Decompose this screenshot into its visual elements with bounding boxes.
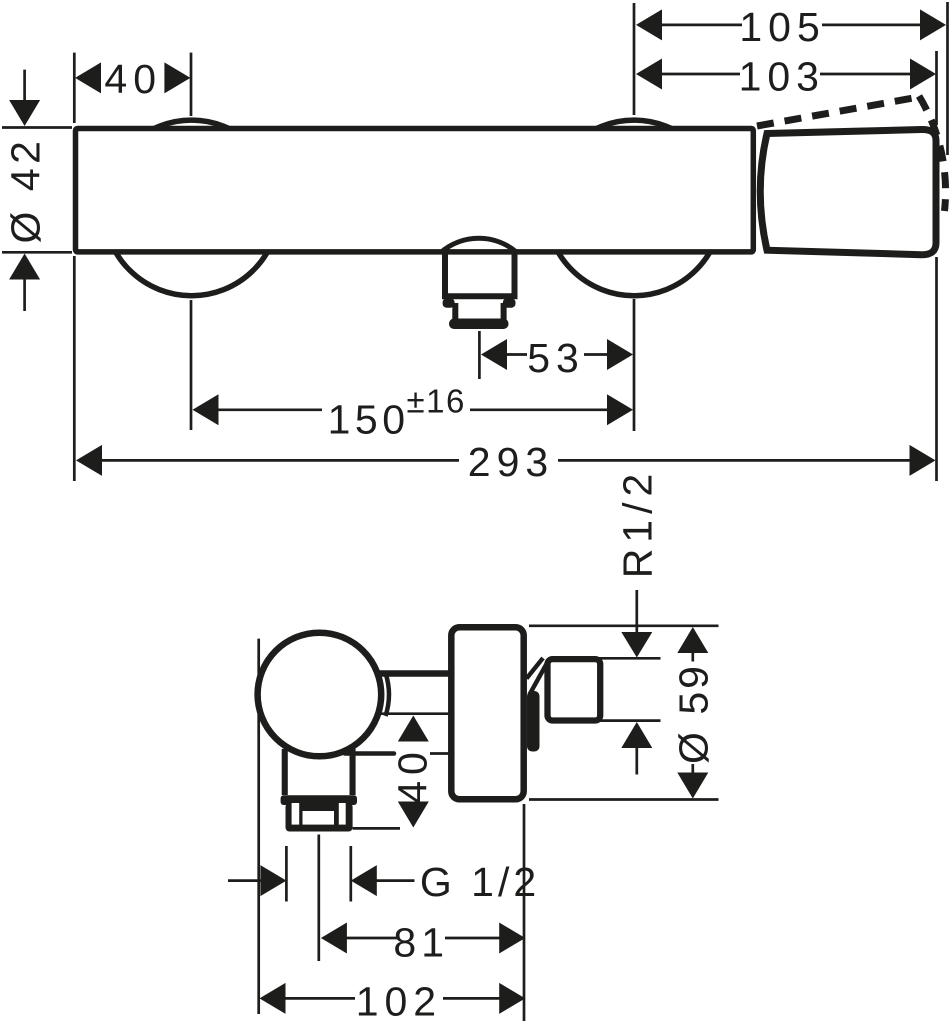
dim 105 ext line right [946, 2, 949, 155]
dim O59 arrow bottom [677, 773, 708, 799]
dim 293 line [102, 459, 910, 462]
dim O42 line top [23, 70, 26, 101]
svg-text:40: 40 [390, 746, 436, 804]
dim R12 ext line top [599, 657, 661, 660]
dim 293 arrow left [76, 445, 102, 476]
dim O59 ext line bottom [529, 798, 719, 801]
side view: nut slot right [339, 803, 346, 825]
svg-text:293: 293 [468, 439, 554, 485]
dim 102 ext line left [257, 639, 260, 1014]
svg-text:G 1/2: G 1/2 [420, 859, 540, 905]
dim 150 arrow right [607, 394, 633, 425]
dim 293 ext line right [935, 257, 938, 481]
side view: lever top line [374, 670, 449, 677]
side view: down outlet flange band [281, 795, 357, 805]
side view: bar silhouette line left segment [345, 751, 394, 756]
dim 40 arrow left [75, 62, 101, 93]
dim G12 ext line right [349, 846, 352, 902]
dim R12 line top [635, 590, 638, 633]
dim 105 arrow left [636, 9, 662, 40]
dim R12 arrow bottom [621, 722, 652, 748]
outlet upper cylinder [445, 252, 515, 296]
dim 40 arrow right [164, 62, 190, 93]
side view: cone diagonal upper [527, 658, 544, 679]
escutcheon circle right [546, 120, 722, 296]
side view: cone diagonal lower [530, 663, 548, 695]
dim 103 ext line right [935, 51, 938, 125]
dim G12 line left tail [228, 879, 261, 882]
svg-text:103: 103 [739, 54, 825, 100]
side view: down outlet nut [286, 803, 353, 832]
dim O42 arrow bottom [9, 254, 40, 280]
dim 40s arrow top [398, 716, 429, 742]
dim 103 arrow left [636, 59, 662, 90]
svg-text:102: 102 [356, 979, 442, 1024]
dim R12 arrow top [621, 632, 652, 658]
handle swing dashed arc [919, 96, 946, 211]
dim 53 ext line (outlet centerline) [478, 331, 481, 379]
dim O59 ext line top [529, 624, 719, 627]
side view: knob collar crescent [386, 673, 389, 716]
svg-text:±16: ±16 [407, 383, 466, 420]
dim R12 line bottom [635, 748, 638, 775]
svg-text:Ø 42: Ø 42 [3, 137, 49, 244]
svg-text:81: 81 [393, 920, 449, 966]
dim 103 arrow right [910, 59, 936, 90]
outlet lower cylinder [455, 303, 503, 320]
dim 81 arrow left [321, 923, 347, 954]
dim 293 arrow right [910, 445, 936, 476]
svg-text:150: 150 [328, 397, 410, 443]
dim 40s bottom pointed line [353, 827, 400, 830]
side view: bar silhouette line right segment [430, 752, 449, 755]
dim 150 ext line left (escutcheon centerline down) [190, 300, 193, 430]
handle [760, 129, 936, 254]
dim O59 arrow top [677, 627, 708, 653]
dim 40 ext line left [73, 53, 76, 123]
outlet bottom cap [449, 319, 509, 330]
dim G12 arrow left [260, 865, 286, 896]
dim R12 ext line bottom [599, 719, 661, 722]
side view: nut slot left [292, 803, 300, 825]
svg-text:R1/2: R1/2 [615, 468, 661, 579]
side view: socket on body [527, 691, 540, 752]
svg-text:Ø 59: Ø 59 [671, 663, 717, 764]
side view: escutcheon body [451, 627, 523, 799]
dim 81 ext line left (outlet centerline down) [317, 835, 320, 962]
dim G12 arrow right [351, 865, 377, 896]
svg-text:53: 53 [527, 335, 585, 381]
dim 81 arrow right [499, 923, 525, 954]
svg-text:40: 40 [104, 56, 162, 102]
outlet dome [441, 238, 517, 252]
dim 105 line [661, 24, 921, 27]
dim G12 line right tail [376, 879, 414, 882]
svg-text:105: 105 [739, 4, 825, 50]
dim 103 line [661, 73, 911, 76]
dim O42 line bottom [23, 280, 26, 312]
dim 105 arrow right [920, 9, 946, 40]
dim 102 arrow left [260, 983, 286, 1014]
dim 293 ext line left [73, 256, 76, 481]
escutcheon circle left [104, 120, 280, 296]
dim O42 arrow top [9, 100, 40, 126]
dim 40s arrow bottom [398, 802, 429, 828]
dim 53 ext line right below (escutcheon centerline down) [633, 299, 636, 431]
outlet flange tab left [443, 298, 455, 307]
side view: down outlet walls [285, 749, 353, 795]
dim 53 line [506, 353, 608, 356]
dim 102 arrow right [499, 983, 525, 1014]
dim 53 arrow right [607, 339, 633, 370]
dim O42 ext line top [2, 126, 72, 129]
body bar [76, 129, 754, 252]
dim 105 ext line left (escutcheon centerline) [633, 3, 636, 115]
dim O42 ext line bottom [2, 251, 72, 254]
dim O59 line stubs [691, 653, 694, 773]
dim 150 line [218, 408, 608, 411]
side view: knob circle [258, 633, 382, 757]
dim 102 line [285, 997, 500, 1000]
dim 81 ext line right (wall plane down) [523, 804, 526, 1021]
dim G12 ext line left [285, 846, 288, 902]
dim 53 arrow left [481, 339, 507, 370]
side view: nut window [303, 811, 335, 825]
side view: wall pipe square [548, 659, 601, 720]
dim 40 ext line right (escutcheon centerline up) [190, 53, 193, 116]
side view: lever bottom line [377, 712, 449, 715]
dim 81 line [346, 937, 499, 940]
dim 150 arrow left [193, 394, 219, 425]
handle swing dashed line [757, 97, 919, 126]
outlet flange tab right [503, 298, 516, 307]
